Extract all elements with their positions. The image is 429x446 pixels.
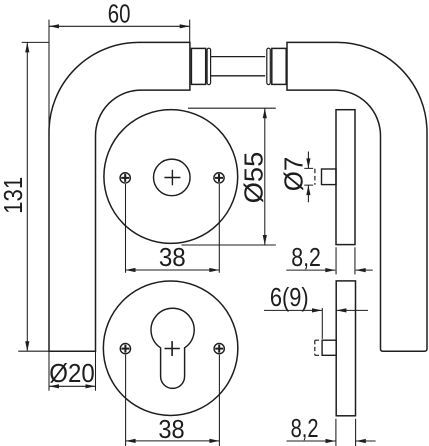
- dim O7: extension ticks: [304, 168, 313, 185]
- dim 131: bottom extension: [18, 350, 49, 352]
- dim 131: top extension (handle top line prolongation): [22, 41, 49, 43]
- right ring: [267, 48, 271, 84]
- arrowheads dim 8,2 upper: [325, 268, 335, 272]
- upper rose hub cross: [164, 170, 180, 185]
- dim 131: dimension line: [26, 42, 28, 351]
- arrowheads dim O7: [306, 158, 310, 168]
- dim O55: dimension line: [264, 108, 266, 245]
- svg-text:Ø55: Ø55: [238, 152, 268, 204]
- arrowheads dim 60: [49, 24, 59, 28]
- dim 8,2 lower: leader under text: [287, 440, 336, 442]
- dim 38 lower: dimension line: [126, 440, 220, 442]
- dim 8,2 upper: leader under text: [286, 269, 335, 271]
- left lever handle outline: [49, 42, 190, 351]
- dim O55: extension lines: [182, 108, 276, 245]
- dim O20: dimension line: [49, 385, 96, 387]
- dim 60: dimension line: [49, 25, 190, 27]
- svg-text:38: 38: [159, 242, 186, 272]
- svg-text:6(9): 6(9): [270, 282, 309, 312]
- spindle bar: [211, 57, 266, 76]
- svg-text:Ø20: Ø20: [49, 358, 94, 388]
- dim 38 upper: dimension line: [126, 269, 220, 271]
- dim O20: extension lines: [49, 352, 96, 391]
- dim 8,2 lower: right arrow line: [356, 440, 376, 442]
- dim 8,2 upper: right arrow line: [356, 269, 373, 271]
- arrowheads dim 8,2 lower: [326, 439, 336, 443]
- side view upper spindle stub: [322, 169, 337, 185]
- arrowheads dim 38 upper: [126, 268, 136, 272]
- dim 38 lower: extension lines: [126, 355, 220, 446]
- svg-text:60: 60: [108, 0, 131, 28]
- right lever handle outline: [287, 42, 427, 351]
- arrowheads dim 6(9): [312, 308, 322, 312]
- svg-text:38: 38: [158, 414, 184, 444]
- side view lower rose plate: [336, 281, 355, 416]
- lower rose cross: [165, 341, 180, 356]
- dim O7: arrow stems: [307, 152, 309, 203]
- arrowheads dim 131: [25, 42, 29, 52]
- right collar: [272, 48, 286, 84]
- euro profile keyhole: [151, 308, 194, 388]
- svg-text:131: 131: [0, 177, 28, 214]
- svg-text:8,2: 8,2: [291, 242, 321, 272]
- dim 38 upper: extension lines: [126, 184, 220, 273]
- arrowheads dim 38 lower: [126, 439, 136, 443]
- upper rose left screw: [120, 173, 130, 183]
- dim 6(9): leader under text: [264, 309, 322, 311]
- svg-text:Ø7: Ø7: [279, 157, 309, 192]
- arrowheads dim O55: [263, 108, 267, 118]
- dim 6(9): extension line: [321, 308, 323, 339]
- upper rose circle: [104, 110, 238, 244]
- side view lower spindle dashed 9mm: [315, 340, 322, 355]
- arrowheads dim O20: [49, 384, 59, 388]
- upper rose hub circle: [154, 159, 191, 196]
- dim 60: extension lines: [49, 20, 190, 133]
- left ring: [207, 48, 211, 84]
- side view lower spindle stub: [322, 340, 336, 355]
- upper rose right screw: [214, 173, 224, 183]
- lower rose right screw: [214, 343, 224, 353]
- side view upper rose plate: [336, 110, 355, 245]
- side view upper spindle dashed 9mm: [314, 169, 316, 185]
- left collar: [191, 48, 205, 84]
- dim 8,2 upper: extension lines below plate: [336, 247, 355, 274]
- lower rose left screw: [120, 343, 130, 353]
- svg-text:8,2: 8,2: [291, 413, 319, 443]
- dim 8,2 lower: extension lines below plate: [336, 419, 356, 446]
- dim 6(9): right arrow line: [336, 309, 368, 311]
- lower rose circle: [103, 281, 238, 416]
